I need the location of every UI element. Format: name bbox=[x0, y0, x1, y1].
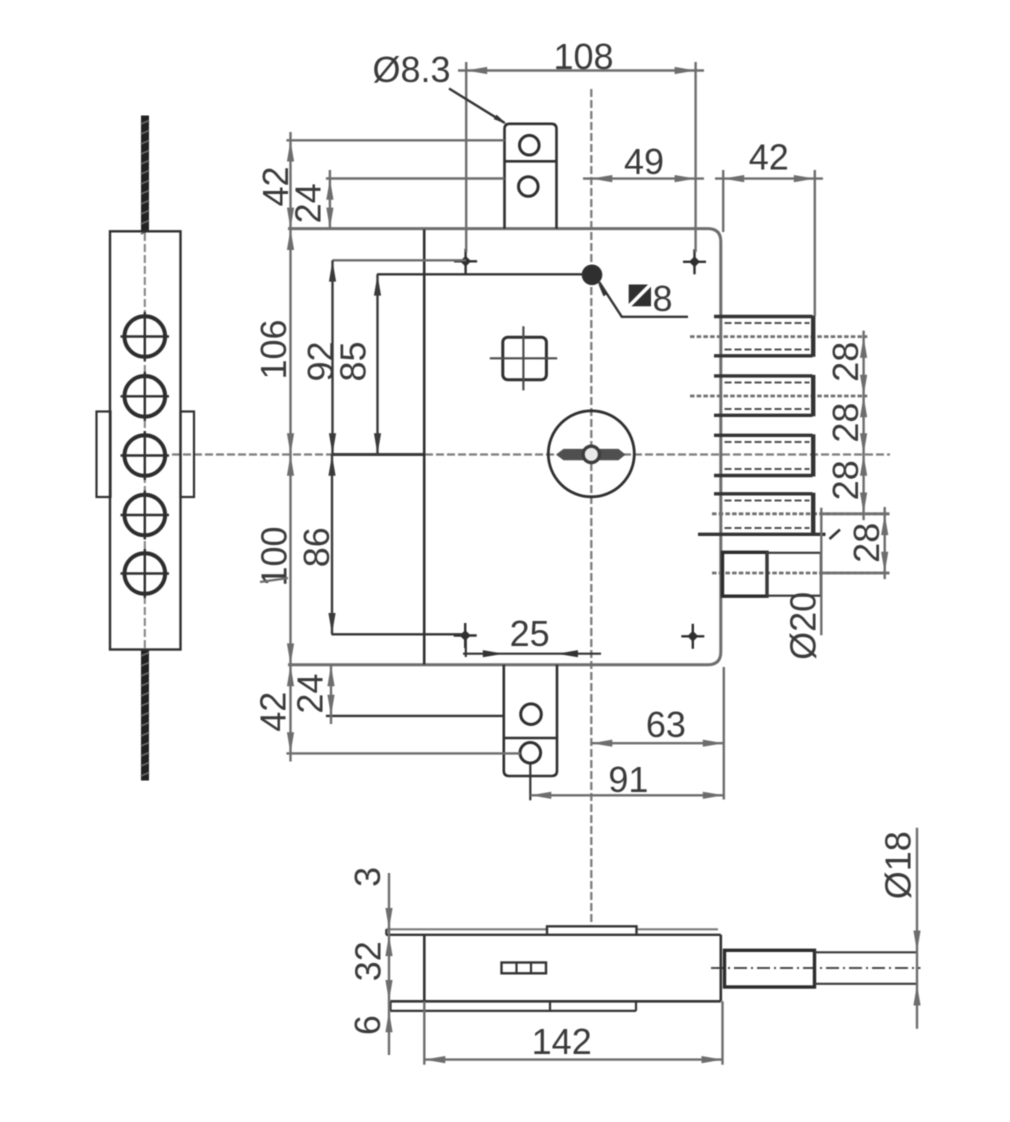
svg-text:24: 24 bbox=[290, 674, 331, 714]
svg-text:91: 91 bbox=[608, 759, 648, 800]
svg-text:49: 49 bbox=[624, 141, 664, 182]
svg-text:28: 28 bbox=[846, 523, 887, 563]
svg-text:32: 32 bbox=[348, 941, 389, 981]
svg-text:Ø8.3: Ø8.3 bbox=[372, 49, 450, 90]
svg-text:3: 3 bbox=[347, 867, 388, 887]
svg-text:42: 42 bbox=[253, 692, 294, 732]
svg-text:108: 108 bbox=[553, 36, 613, 77]
svg-text:100: 100 bbox=[254, 526, 295, 586]
svg-text:42: 42 bbox=[749, 137, 789, 178]
svg-text:85: 85 bbox=[333, 341, 374, 381]
svg-text:28: 28 bbox=[825, 403, 866, 443]
svg-text:142: 142 bbox=[532, 1021, 592, 1062]
svg-text:Ø18: Ø18 bbox=[878, 831, 919, 899]
svg-text:28: 28 bbox=[825, 460, 866, 500]
svg-text:28: 28 bbox=[825, 342, 866, 382]
svg-text:6: 6 bbox=[347, 1015, 388, 1035]
svg-text:8: 8 bbox=[652, 278, 672, 319]
svg-text:24: 24 bbox=[287, 183, 328, 223]
svg-text:106: 106 bbox=[253, 319, 294, 379]
svg-text:63: 63 bbox=[646, 704, 686, 745]
svg-text:86: 86 bbox=[296, 527, 337, 567]
svg-text:Ø20: Ø20 bbox=[782, 592, 823, 660]
svg-text:25: 25 bbox=[510, 613, 550, 654]
